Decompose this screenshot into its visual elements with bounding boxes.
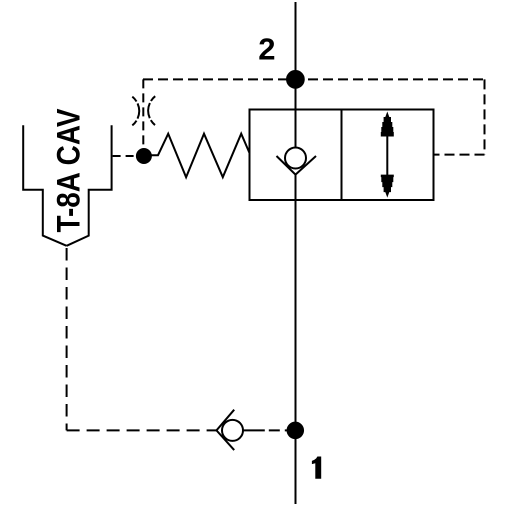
node 2 [287,71,304,88]
wire: pilot dashed to valve right side [434,154,485,156]
wire: pilot dashed line top horizontal [143,78,485,80]
wire: dashed drain horizontal to check valve [67,429,217,431]
wire: main line port 2 to check valve [295,2,297,148]
drain check valve seat V [217,410,235,450]
orifice left arc [132,97,139,126]
wire: dashed cavity to junction [113,155,136,157]
wire: pilot dashed left vertical through orifice [142,79,144,149]
svg-text:T-8A CAV: T-8A CAV [50,108,86,233]
orifice right arc [148,96,155,125]
check valve ball [285,148,306,169]
wire: pilot dashed right vertical [484,79,486,154]
wire: dashed cavity drain vertical [66,248,68,430]
node 1 [287,422,303,438]
junction node pilot/spring [136,149,151,164]
flow arrow shaft [386,134,388,177]
label port 1 [312,457,321,479]
flow arrow head down [381,175,394,198]
wire: main line check valve to port 1 [295,175,297,504]
drain check valve ball [222,420,243,441]
valve body right cell [342,110,434,201]
svg-text:2: 2 [258,32,275,67]
wire: dashed check valve to node 1 [243,429,287,431]
flow arrow head up [381,112,394,137]
cavity outline left [23,125,66,246]
cavity outline right [67,125,112,246]
valve body left cell [250,110,342,201]
spring [150,134,250,178]
check valve seat V [277,156,317,175]
